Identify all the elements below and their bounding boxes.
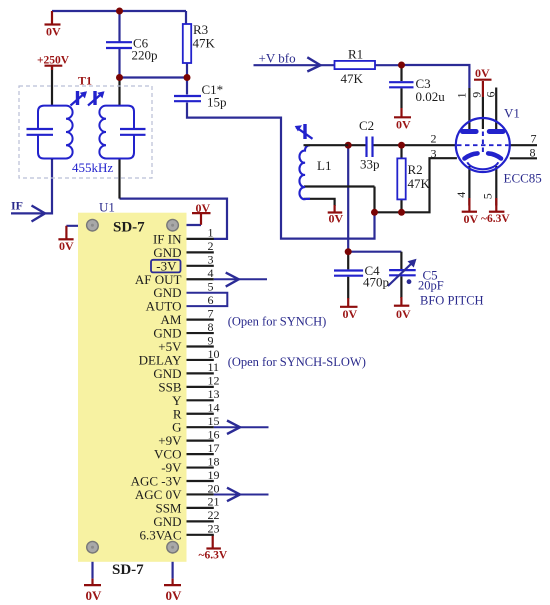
svg-text:0V: 0V <box>46 25 61 39</box>
svg-text:4: 4 <box>208 266 214 280</box>
svg-text:220p: 220p <box>132 48 158 63</box>
svg-text:T1: T1 <box>78 74 92 88</box>
svg-text:47K: 47K <box>341 71 364 86</box>
svg-text:R1: R1 <box>348 47 363 62</box>
svg-text:20: 20 <box>208 481 220 495</box>
svg-text:20pF: 20pF <box>418 279 444 293</box>
svg-text:11: 11 <box>208 360 220 374</box>
svg-text:BFO PITCH: BFO PITCH <box>420 294 484 308</box>
svg-text:33p: 33p <box>360 157 380 172</box>
svg-text:ECC85: ECC85 <box>504 171 542 186</box>
svg-text:2: 2 <box>208 239 214 253</box>
svg-text:6.3VAC: 6.3VAC <box>139 527 181 542</box>
svg-text:13: 13 <box>208 387 220 401</box>
svg-text:5: 5 <box>481 193 495 199</box>
svg-text:(Open for SYNCH-SLOW): (Open for SYNCH-SLOW) <box>228 355 366 369</box>
svg-text:2: 2 <box>431 132 437 146</box>
svg-text:9: 9 <box>470 92 484 98</box>
svg-text:L1: L1 <box>317 158 331 173</box>
svg-text:1: 1 <box>455 92 469 98</box>
svg-text:+250V: +250V <box>37 55 70 67</box>
svg-text:7: 7 <box>531 132 537 146</box>
svg-text:17: 17 <box>208 441 220 455</box>
svg-text:0V: 0V <box>464 212 479 226</box>
svg-text:3: 3 <box>431 147 437 161</box>
svg-text:C2: C2 <box>359 118 374 133</box>
svg-text:(Open for SYNCH): (Open for SYNCH) <box>228 315 327 329</box>
svg-text:4: 4 <box>454 192 468 198</box>
svg-text:R2: R2 <box>408 162 423 177</box>
svg-text:SD-7: SD-7 <box>112 562 144 578</box>
svg-text:14: 14 <box>208 401 220 415</box>
svg-text:+V bfo: +V bfo <box>259 51 296 66</box>
svg-text:SD-7: SD-7 <box>113 220 145 236</box>
svg-text:1: 1 <box>208 226 214 240</box>
svg-text:IF: IF <box>11 199 23 213</box>
svg-text:10: 10 <box>208 347 220 361</box>
svg-text:19: 19 <box>208 468 220 482</box>
svg-text:7: 7 <box>208 306 214 320</box>
svg-text:455kHz: 455kHz <box>72 160 113 175</box>
svg-text:0V: 0V <box>86 588 103 603</box>
svg-text:0V: 0V <box>196 201 211 215</box>
svg-text:22: 22 <box>208 508 220 522</box>
svg-text:0V: 0V <box>166 588 183 603</box>
svg-text:47K: 47K <box>408 176 431 191</box>
svg-text:470p: 470p <box>363 275 389 290</box>
svg-text:15: 15 <box>208 414 220 428</box>
svg-text:18: 18 <box>208 454 220 468</box>
svg-text:0V: 0V <box>343 307 358 321</box>
svg-text:6: 6 <box>483 92 497 98</box>
svg-text:3: 3 <box>208 253 214 267</box>
svg-text:U1: U1 <box>99 200 115 215</box>
svg-text:21: 21 <box>208 495 220 509</box>
svg-text:0V: 0V <box>475 66 490 80</box>
svg-text:8: 8 <box>208 320 214 334</box>
svg-text:0V: 0V <box>396 307 411 321</box>
svg-text:8: 8 <box>530 146 536 160</box>
svg-text:9: 9 <box>208 333 214 347</box>
svg-text:6: 6 <box>208 293 214 307</box>
svg-text:V1: V1 <box>504 106 520 121</box>
svg-text:5: 5 <box>208 280 214 294</box>
svg-text:15p: 15p <box>207 95 227 110</box>
svg-text:0V: 0V <box>396 118 411 132</box>
svg-text:12: 12 <box>208 374 220 388</box>
svg-text:0V: 0V <box>59 239 74 253</box>
svg-text:47K: 47K <box>193 36 216 51</box>
svg-text:0.02u: 0.02u <box>416 89 446 104</box>
svg-text:16: 16 <box>208 427 220 441</box>
svg-text:~6.3V: ~6.3V <box>481 213 510 225</box>
svg-text:~6.3V: ~6.3V <box>199 550 228 562</box>
svg-text:23: 23 <box>208 522 220 536</box>
svg-text:0V: 0V <box>329 212 344 226</box>
